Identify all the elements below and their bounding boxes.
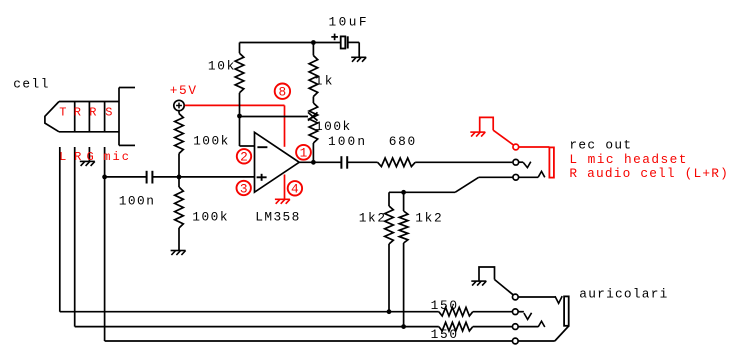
svg-text:1k2: 1k2: [415, 210, 441, 225]
svg-text:10uF: 10uF: [329, 14, 367, 29]
svg-text:auricolari: auricolari: [579, 287, 667, 302]
svg-text:LM358: LM358: [255, 209, 299, 224]
svg-text:150: 150: [431, 327, 457, 342]
svg-text:1k2: 1k2: [359, 210, 385, 225]
svg-text:mic: mic: [103, 150, 129, 164]
svg-text:1: 1: [300, 146, 308, 161]
svg-text:100n: 100n: [328, 134, 365, 149]
svg-text:150: 150: [431, 298, 457, 313]
svg-text:680: 680: [389, 134, 415, 149]
svg-text:8: 8: [279, 85, 287, 100]
svg-text:1k: 1k: [315, 74, 333, 89]
svg-text:3: 3: [240, 181, 248, 196]
svg-text:cell: cell: [13, 76, 48, 91]
svg-text:100k: 100k: [192, 209, 228, 224]
svg-text:R: R: [89, 105, 96, 119]
svg-text:G: G: [87, 150, 94, 164]
svg-text:R audio cell (L+R): R audio cell (L+R): [569, 166, 727, 181]
svg-text:100k: 100k: [193, 134, 229, 149]
svg-text:4: 4: [291, 182, 299, 197]
svg-text:10k: 10k: [208, 59, 235, 74]
svg-text:2: 2: [240, 150, 248, 165]
svg-text:R: R: [74, 105, 81, 119]
svg-text:L: L: [59, 150, 66, 164]
svg-text:100k: 100k: [315, 119, 351, 134]
svg-text:S: S: [105, 105, 112, 119]
svg-text:rec out: rec out: [569, 138, 631, 153]
svg-text:L mic headset: L mic headset: [569, 152, 686, 167]
svg-text:R: R: [74, 150, 81, 164]
svg-text:T: T: [59, 105, 66, 119]
svg-text:100n: 100n: [119, 194, 154, 209]
svg-text:+5V: +5V: [170, 83, 197, 98]
